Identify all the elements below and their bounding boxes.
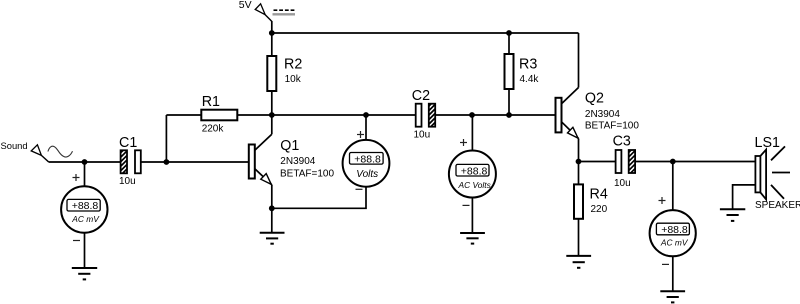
svg-text:AC mV: AC mV	[71, 214, 100, 224]
svg-text:220: 220	[591, 204, 608, 215]
resistor R1	[201, 110, 237, 121]
svg-text:2N3904: 2N3904	[585, 109, 620, 120]
power rail dashed symbol	[273, 10, 296, 14]
wire M4 to ground	[672, 256, 674, 291]
svg-text:C3: C3	[613, 133, 631, 149]
ground M4	[660, 291, 685, 302]
svg-text:+88.8: +88.8	[461, 165, 488, 177]
wire C1 to Q1 base	[141, 161, 249, 163]
svg-text:10k: 10k	[285, 74, 302, 85]
svg-text:BETAF=100: BETAF=100	[585, 121, 639, 132]
plus sign M2	[357, 131, 364, 138]
wire emitter junction to ground	[271, 208, 273, 233]
node output meter tap	[670, 159, 676, 165]
sound source triangle	[31, 145, 48, 162]
sound sine wave	[48, 146, 73, 157]
minus sign M4	[662, 263, 669, 265]
resistor R2	[267, 56, 276, 91]
node Volts meter tap	[363, 112, 369, 118]
plus sign M3	[460, 139, 467, 146]
svg-text:Volts: Volts	[356, 169, 378, 180]
node Q1 emitter junction	[269, 205, 275, 211]
minus sign M2	[356, 188, 363, 190]
node AC Volts meter tap	[469, 112, 475, 118]
svg-text:4.4k: 4.4k	[520, 74, 540, 85]
svg-text:R3: R3	[519, 56, 537, 72]
wire C3 to speaker	[635, 161, 755, 163]
resistor R3	[505, 54, 514, 89]
svg-text:Q1: Q1	[280, 138, 299, 154]
svg-text:C1: C1	[119, 135, 137, 151]
ground M1	[72, 268, 97, 279]
svg-text:R4: R4	[590, 186, 608, 202]
minus sign M3	[463, 204, 470, 206]
transistor Q2	[556, 88, 579, 139]
svg-text:220k: 220k	[202, 123, 225, 134]
capacitor C3	[616, 144, 638, 181]
svg-text:AC Volts: AC Volts	[458, 180, 492, 190]
svg-text:AC mV: AC mV	[660, 238, 689, 248]
wire M2 to emitter node	[272, 187, 366, 209]
wire Q2 collector up to rail	[578, 33, 580, 88]
ground speaker	[720, 209, 745, 221]
voltmeter M4 AC mV output	[650, 162, 696, 257]
wire speaker bottom lead	[733, 185, 756, 209]
minus sign M1	[73, 240, 80, 242]
wire rail to R3	[508, 33, 510, 54]
node supply rail left	[269, 30, 275, 36]
power supply 5V triangle symbol	[255, 4, 272, 22]
svg-text:5V: 5V	[239, 0, 252, 11]
node R3 top	[506, 30, 512, 36]
wire to R1 left	[166, 114, 201, 116]
svg-text:SPEAKER: SPEAKER	[755, 200, 800, 211]
svg-text:10u: 10u	[119, 176, 136, 187]
voltmeter M1 AC mV input	[61, 162, 107, 233]
ground M3	[460, 233, 485, 244]
svg-text:C2: C2	[412, 88, 430, 104]
wire R1 branch up	[165, 115, 167, 162]
svg-text:+88.8: +88.8	[661, 224, 688, 236]
wire M1 to ground	[84, 233, 86, 268]
wire Q2 emitter down	[578, 139, 580, 162]
wire R2 to collector node	[271, 91, 273, 115]
resistor R4	[574, 184, 583, 218]
svg-text:10u: 10u	[414, 129, 431, 140]
svg-text:Sound: Sound	[1, 140, 28, 151]
plus sign M4	[659, 197, 666, 204]
wire R1 right to collector node	[237, 114, 271, 116]
capacitor C1	[119, 144, 141, 181]
svg-text:+88.8: +88.8	[354, 154, 381, 166]
node R1 branch	[164, 159, 170, 165]
wire R4 to ground	[578, 219, 580, 256]
wire Q1 emitter down	[271, 185, 273, 209]
node input meter tap	[82, 159, 88, 165]
node Q1 collector	[269, 112, 275, 118]
svg-text:+88.8: +88.8	[72, 200, 99, 212]
node Q2 emitter	[576, 159, 582, 165]
wire top rail	[272, 32, 579, 34]
svg-text:BETAF=100: BETAF=100	[280, 168, 334, 179]
wire rail to R2	[271, 33, 273, 56]
wire supply to rail	[271, 21, 273, 33]
voltmeter M2 Volts	[343, 115, 390, 187]
svg-text:10u: 10u	[614, 178, 631, 189]
svg-text:2N3904: 2N3904	[280, 156, 315, 167]
capacitor C2	[416, 98, 437, 135]
wire sound to C1	[49, 161, 121, 163]
node R3 bottom	[506, 112, 512, 118]
wire C2 to Q2 base	[435, 114, 555, 116]
wire R3 to base wire	[508, 89, 510, 115]
svg-text:R1: R1	[202, 94, 220, 110]
ground Q1 emitter	[260, 233, 285, 244]
svg-text:LS1: LS1	[755, 135, 780, 151]
wire emitter node to C3	[579, 161, 616, 163]
wire collector node to C2	[272, 114, 416, 116]
loudspeaker LS1	[755, 146, 790, 199]
wire Q1 collector up	[271, 115, 273, 134]
wire emitter node to R4	[578, 162, 580, 185]
voltmeter M3 AC Volts	[449, 115, 496, 198]
ground R4	[566, 256, 591, 268]
plus sign M1	[73, 174, 80, 181]
svg-text:Q2: Q2	[585, 90, 604, 106]
svg-text:R2: R2	[284, 56, 302, 72]
wire M3 to ground	[471, 198, 473, 234]
transistor Q1	[249, 134, 272, 185]
